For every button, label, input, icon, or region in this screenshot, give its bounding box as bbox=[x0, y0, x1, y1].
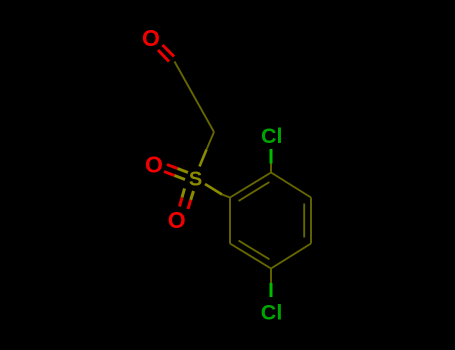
wire chain bond C1-C2 bbox=[175, 62, 215, 133]
ring edge Cbot-Cbl bbox=[230, 244, 271, 269]
bond S-Cipso dark half bbox=[222, 195, 230, 198]
ring edge Ctr-Cbr bbox=[310, 198, 312, 244]
bond Cbot-Cl2 green half bbox=[270, 283, 273, 297]
bond S-Cipso bright half bbox=[205, 184, 222, 195]
double bond C1=O1 (red) bbox=[158, 45, 174, 62]
double bond S=O2 bicolor bbox=[164, 165, 188, 180]
svg-text:S: S bbox=[189, 169, 202, 191]
ring inner double bond Cipso-Ctop bbox=[239, 182, 270, 201]
ring edge Ctop-Ctr bbox=[271, 173, 311, 198]
svg-text:Cl: Cl bbox=[261, 124, 283, 148]
ring edge Cbl-Cipso bbox=[229, 198, 231, 244]
double bond S=O3 bicolor bbox=[180, 189, 194, 210]
svg-text:Cl: Cl bbox=[261, 301, 283, 325]
bond Cbot-Cl2 dark half bbox=[270, 269, 272, 284]
svg-text:O: O bbox=[168, 207, 186, 233]
ring inner double bond Cbot-Cbl bbox=[239, 241, 270, 260]
svg-text:O: O bbox=[142, 25, 160, 51]
ring inner double bond Ctr-Cbr bbox=[303, 204, 305, 238]
wire chain bond C2-S (bright half near S) bbox=[200, 150, 207, 167]
ring edge Cipso-Ctop bbox=[230, 173, 271, 198]
ring edge Cbr-Cbot bbox=[271, 244, 311, 269]
bond Ctop-Cl1 dark half bbox=[270, 164, 272, 173]
bond Ctop-Cl1 green half bbox=[270, 149, 273, 164]
benzene ring outline bbox=[230, 173, 311, 269]
wire chain bond C2-S (dark half) bbox=[207, 132, 215, 150]
svg-text:O: O bbox=[145, 152, 163, 178]
